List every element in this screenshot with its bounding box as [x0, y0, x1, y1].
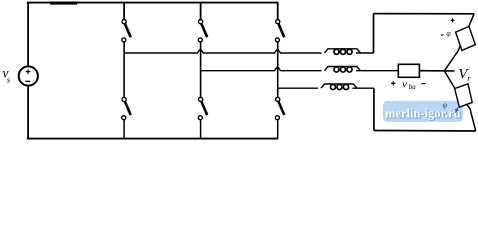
label + (upper resistor)	[451, 18, 455, 22]
wire phase A	[124, 50, 321, 53]
label - (v_ba right)	[422, 83, 426, 85]
svg-text:v: v	[402, 78, 407, 90]
wire riser phase A	[373, 14, 375, 53]
leg 1 wires	[123, 3, 125, 22]
bottom rail	[27, 138, 279, 140]
svg-text:ba: ba	[409, 83, 417, 91]
svg-text:s: s	[7, 74, 11, 84]
switch S1 (leg1 top)	[122, 20, 131, 42]
label + (v_ba left)	[391, 81, 395, 85]
wire left (dc bus)	[27, 3, 29, 67]
inductor L1	[325, 49, 361, 55]
inductor L2	[325, 67, 361, 73]
top rail	[27, 2, 279, 4]
wire phase B to node	[419, 70, 454, 72]
switch S3 (leg3 top)	[275, 20, 284, 42]
switch S5 (leg2 bottom)	[198, 97, 207, 119]
label a-phi (upper resistor)	[441, 34, 444, 37]
wire drop phase C	[373, 88, 375, 130]
wire phase C	[278, 87, 318, 89]
wire upper diagonal	[444, 14, 474, 71]
svg-text:φ: φ	[443, 101, 448, 110]
resistor box v_ba (horizontal)	[398, 64, 419, 77]
inductor L3	[321, 84, 357, 90]
wire phase B	[201, 68, 322, 71]
watermark merlin-igor.ru	[383, 101, 463, 122]
top rail thick smudge	[50, 2, 77, 5]
source Vs	[19, 66, 38, 85]
wire bottom right	[374, 130, 476, 133]
svg-text:merlin-igor.ru: merlin-igor.ru	[385, 106, 461, 120]
switch S4 (leg1 bottom)	[122, 97, 131, 119]
wire lower diagonal	[444, 71, 475, 131]
resistor lower (tilted)	[455, 84, 473, 107]
svg-text:φ: φ	[446, 29, 451, 38]
leg 2 wires	[200, 3, 202, 22]
wire top right	[374, 13, 475, 15]
svg-text:r: r	[467, 73, 471, 83]
switch S2 (leg2 top)	[198, 20, 207, 42]
resistor upper (tilted)	[456, 26, 476, 50]
leg 3 wires	[277, 3, 279, 22]
label tick (lower, navy)	[455, 108, 458, 113]
switch S6 (leg3 bottom)	[275, 97, 284, 119]
